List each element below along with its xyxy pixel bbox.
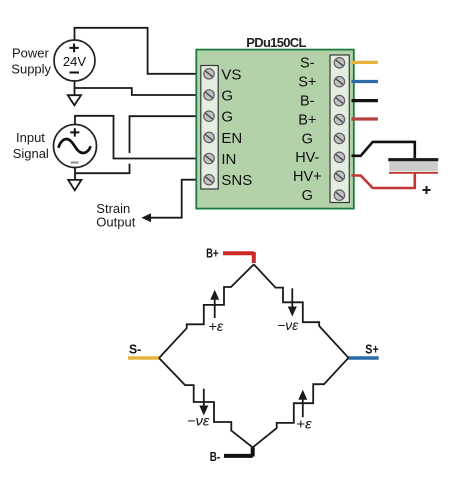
bridge lead S+ (blue) <box>348 356 378 360</box>
piezo actuator bottom electrode <box>389 172 438 174</box>
svg-text:HV+: HV+ <box>293 169 322 185</box>
terminal VS <box>204 69 214 79</box>
terminal G3 <box>334 133 344 143</box>
terminal B+ <box>334 114 344 124</box>
wire: signal- to ground <box>74 168 76 180</box>
svg-text:B-: B- <box>300 94 315 110</box>
bridge lead S- (yellow) <box>128 356 159 360</box>
svg-text:−νε: −νε <box>277 317 299 333</box>
svg-text:S-: S- <box>129 342 141 357</box>
arrow down (R2) <box>291 288 293 308</box>
bridge arm bottom-right: strain gauge R4 (+e) <box>253 358 349 448</box>
bridge arm top-left: strain gauge R1 (+e) <box>159 264 254 358</box>
wire: 24V+ to VS <box>75 28 203 74</box>
arrow up (R4) <box>302 398 304 418</box>
wire HV- to actuator (black) <box>352 142 415 158</box>
label + (actuator polarity) <box>423 186 431 194</box>
terminal strip left <box>201 66 218 190</box>
svg-text:24V: 24V <box>63 54 86 69</box>
svg-text:Signal: Signal <box>13 146 49 161</box>
arrow up (R1) <box>214 298 216 319</box>
svg-text:Supply: Supply <box>11 62 51 77</box>
terminal EN <box>204 132 214 142</box>
bridge lead B- (black) <box>224 447 253 456</box>
svg-text:IN: IN <box>221 151 236 168</box>
svg-text:B+: B+ <box>298 112 316 128</box>
wire: 24V- to ground <box>74 81 76 95</box>
wire S+ (blue) <box>352 80 378 83</box>
bridge lead B+ (red) <box>223 252 254 263</box>
ground (power supply) <box>68 95 81 105</box>
svg-text:SNS: SNS <box>221 172 252 189</box>
terminal HV- <box>334 152 344 162</box>
bridge arm top-right: strain gauge R2 (-ve) <box>254 264 349 357</box>
svg-text:+ε: +ε <box>208 318 224 334</box>
arrowhead (strain output) <box>141 213 151 222</box>
wire: signal+ to IN <box>75 116 202 159</box>
terminal strip right <box>330 55 349 203</box>
svg-text:G: G <box>221 88 233 105</box>
svg-text:G: G <box>302 188 313 204</box>
svg-text:+ε: +ε <box>296 416 313 432</box>
bridge arm bottom-left: strain gauge R3 (-ve) <box>159 358 253 447</box>
svg-text:S+: S+ <box>365 342 379 357</box>
svg-text:HV-: HV- <box>295 150 319 166</box>
svg-text:EN: EN <box>221 130 242 147</box>
svg-text:PDu150CL: PDu150CL <box>246 35 306 50</box>
terminal B- <box>334 95 344 105</box>
piezo actuator ceramic body <box>389 161 438 171</box>
terminal SNS <box>204 175 214 185</box>
power supply source V1 <box>54 40 95 81</box>
svg-text:Output: Output <box>96 215 135 230</box>
terminal G4 <box>334 190 344 200</box>
wire: signal- to G2 (hop over IN wire) <box>75 116 202 173</box>
svg-text:S-: S- <box>300 56 315 72</box>
svg-text:B+: B+ <box>206 246 219 261</box>
svg-text:Input: Input <box>16 130 45 145</box>
terminal S- <box>334 58 344 68</box>
terminal G1 <box>204 90 214 100</box>
svg-text:B-: B- <box>210 449 220 464</box>
piezo actuator top electrode <box>388 158 438 161</box>
wire S- (yellow) <box>352 61 378 64</box>
wire: SNS to strain output <box>148 180 205 218</box>
wire HV+ to actuator (red) <box>352 174 415 189</box>
input signal source V2 <box>54 125 97 168</box>
ground (input signal) <box>68 180 81 190</box>
wire B+ (red) <box>352 117 378 120</box>
terminal S+ <box>334 77 344 87</box>
svg-text:−νε: −νε <box>187 412 210 428</box>
svg-text:G: G <box>221 109 233 126</box>
svg-text:Power: Power <box>12 45 50 60</box>
wire B- (black) <box>352 99 378 102</box>
arrow down (R3) <box>203 389 205 408</box>
svg-text:VS: VS <box>221 66 241 83</box>
wire: 24V- to G1 <box>75 88 203 95</box>
svg-text:S+: S+ <box>298 75 316 91</box>
module PDu150CL body <box>196 50 353 209</box>
terminal G2 <box>204 111 214 121</box>
terminal IN <box>204 153 214 163</box>
svg-text:G: G <box>302 131 313 147</box>
terminal HV+ <box>334 171 344 181</box>
